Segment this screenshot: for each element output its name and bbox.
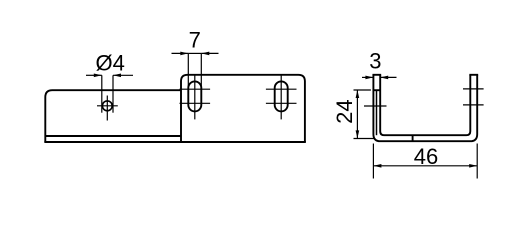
U-channel outer profile (end view) — [373, 75, 477, 141]
svg-text:Ø4: Ø4 — [96, 51, 125, 76]
left leg top cap — [372, 74, 381, 76]
dimension 3 — [362, 76, 373, 78]
bottom plate top edge (front view) — [45, 135, 181, 137]
7 left extension line — [187, 53, 189, 88]
dimension 24 — [356, 90, 358, 138]
right leg slot upper center line — [463, 88, 484, 90]
46 right extension line — [476, 144, 478, 179]
front flange edge (seen in end view) — [376, 90, 378, 135]
slot 2 vertical center line — [280, 75, 282, 120]
slot 2 upper center line — [266, 88, 297, 90]
slot 1 (oblong hole) — [188, 81, 201, 111]
Ø4 right extension line — [112, 75, 114, 112]
dimension Ø4 — [86, 74, 102, 76]
middle plate outline (flange with slots) — [181, 75, 305, 142]
hole vertical center line — [106, 96, 108, 121]
slot 2 lower center line — [266, 102, 297, 104]
slot 2 (oblong hole) — [275, 81, 288, 111]
svg-text:46: 46 — [414, 144, 438, 169]
hole horizontal center line — [97, 105, 118, 107]
slot 1 lower center line — [180, 102, 211, 104]
46 left extension line — [372, 144, 374, 179]
7 right extension line — [200, 53, 202, 88]
front flange top edge in end view — [373, 89, 380, 91]
svg-text:3: 3 — [369, 49, 381, 74]
slot 1 upper center line — [180, 88, 211, 90]
left plate outline (side flange with hole) — [45, 90, 181, 142]
svg-text:7: 7 — [189, 27, 201, 52]
24 top extension line — [354, 89, 371, 91]
hole Ø4 — [102, 101, 112, 111]
Ø4 left extension line — [101, 75, 103, 112]
U-channel inner profile — [380, 75, 470, 135]
right leg slot lower center line — [463, 104, 484, 106]
24 bottom extension line — [354, 138, 375, 140]
left leg hole center line — [364, 105, 387, 107]
slot 1 vertical center line — [194, 75, 196, 120]
bottom edge line (front view) — [44, 141, 306, 143]
svg-text:24: 24 — [332, 99, 357, 123]
dimension 7 — [172, 52, 189, 54]
dimension 46 — [373, 165, 477, 167]
bottom plate end tick — [412, 135, 414, 141]
right leg top cap — [469, 74, 478, 76]
